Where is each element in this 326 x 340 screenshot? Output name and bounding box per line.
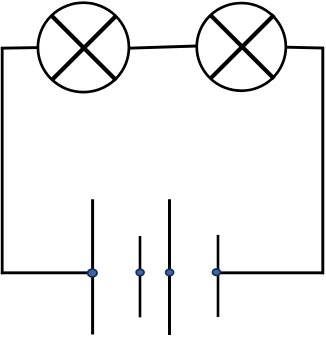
wire between lamps: [129, 46, 198, 48]
junction dot on cell 1 long plate: [88, 269, 97, 277]
wire bottom-right horizontal from battery: [217, 271, 324, 274]
wire top-right horizontal from lamp 2: [286, 46, 324, 50]
junction dot on cell 2 long plate: [166, 269, 174, 276]
junction dot on cell 2 short plate: [212, 269, 220, 276]
battery cell 2 short plate: [217, 235, 220, 317]
wire bottom-left horizontal to battery: [1, 271, 92, 274]
wire right vertical side: [321, 47, 324, 274]
wire left vertical side: [1, 47, 4, 274]
junction dot on cell 1 short plate: [136, 269, 144, 276]
battery cell 1 short plate: [139, 236, 142, 317]
wire top-left horizontal to lamp 1: [1, 46, 39, 50]
battery cell 2 long plate: [168, 199, 171, 335]
lamp L2: [197, 3, 286, 91]
lamp L1: [38, 3, 129, 92]
battery cell 1 long plate: [91, 199, 94, 334]
